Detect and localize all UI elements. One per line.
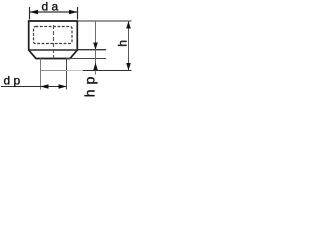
da right extension line [77, 7, 79, 20]
da left arrowhead [30, 10, 38, 15]
dp left arrowhead [40, 84, 48, 89]
svg-text:d p: d p [4, 74, 21, 88]
da left extension line [29, 7, 31, 20]
svg-text:h p: h p [82, 76, 98, 97]
h dimension line [128, 21, 130, 71]
body bottom extension right [67, 58, 107, 60]
svg-text:h: h [116, 40, 130, 47]
hp dimension line [95, 21, 97, 75]
boss bottom edge [41, 70, 67, 72]
centerline dashed [53, 25, 55, 59]
da right arrowhead [69, 10, 77, 15]
bottom extension line right (h, hp) [83, 70, 132, 72]
dp dimension line [1, 86, 67, 88]
chamfer line [29, 49, 78, 51]
boss bottom faint extension [67, 70, 84, 72]
top extension line right (h) [78, 20, 132, 22]
boss right side / dp extension line [66, 59, 68, 90]
hp upper arrowhead pointing down at chamfer line [93, 43, 98, 51]
body outline (knob side view) [29, 21, 78, 59]
hidden bore dashed rectangle [34, 27, 73, 44]
h bottom arrowhead pointing down [126, 63, 131, 71]
svg-text:d a: d a [42, 0, 59, 14]
h top arrowhead pointing up [126, 21, 131, 29]
chamfer line extension right [77, 49, 106, 51]
dp right arrowhead [59, 84, 67, 89]
da dimension line [30, 11, 78, 13]
boss left side / dp extension line [40, 59, 42, 90]
hp lower arrowhead pointing up from boss bottom [93, 63, 98, 71]
